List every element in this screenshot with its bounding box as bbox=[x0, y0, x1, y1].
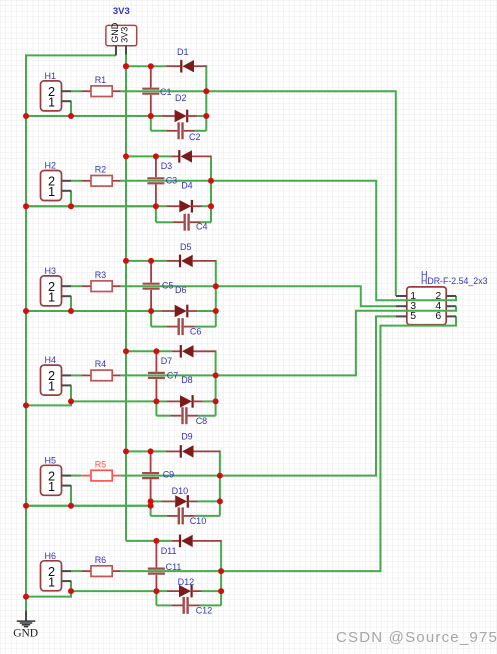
svg-text:R6: R6 bbox=[95, 555, 107, 565]
svg-text:H3: H3 bbox=[45, 266, 57, 276]
svg-text:D2: D2 bbox=[175, 93, 187, 103]
svg-text:C6: C6 bbox=[190, 327, 202, 337]
svg-text:D12: D12 bbox=[178, 577, 195, 587]
svg-text:D9: D9 bbox=[181, 432, 193, 442]
svg-text:H4: H4 bbox=[45, 355, 57, 365]
svg-text:CSDN @Source_975: CSDN @Source_975 bbox=[336, 629, 497, 646]
svg-text:1: 1 bbox=[48, 574, 55, 589]
svg-text:GND: GND bbox=[13, 628, 38, 640]
svg-text:C4: C4 bbox=[196, 222, 208, 232]
svg-text:C2: C2 bbox=[189, 132, 201, 142]
svg-text:H2: H2 bbox=[45, 161, 57, 171]
svg-text:1: 1 bbox=[48, 289, 55, 304]
svg-text:H6: H6 bbox=[45, 551, 57, 561]
svg-text:1: 1 bbox=[48, 94, 55, 109]
svg-text:R3: R3 bbox=[95, 270, 107, 280]
svg-text:1: 1 bbox=[48, 479, 55, 494]
svg-text:D3: D3 bbox=[161, 161, 173, 171]
svg-text:6: 6 bbox=[435, 310, 441, 322]
svg-text:3V3: 3V3 bbox=[119, 27, 129, 43]
svg-text:D6: D6 bbox=[175, 285, 187, 295]
svg-text:R5: R5 bbox=[95, 459, 107, 469]
svg-text:C10: C10 bbox=[190, 516, 207, 526]
svg-text:R2: R2 bbox=[95, 165, 107, 175]
svg-text:HDR-F-2.54_2x3: HDR-F-2.54_2x3 bbox=[421, 276, 488, 286]
svg-text:C1: C1 bbox=[160, 87, 172, 97]
svg-text:H1: H1 bbox=[45, 71, 57, 81]
svg-text:H5: H5 bbox=[45, 455, 57, 465]
svg-text:D1: D1 bbox=[177, 47, 189, 57]
svg-text:1: 1 bbox=[48, 379, 55, 394]
svg-text:D7: D7 bbox=[161, 356, 173, 366]
svg-text:C5: C5 bbox=[162, 281, 174, 291]
svg-text:C11: C11 bbox=[166, 562, 182, 572]
svg-text:R1: R1 bbox=[95, 75, 107, 85]
svg-text:D8: D8 bbox=[181, 375, 193, 385]
svg-text:D10: D10 bbox=[172, 486, 189, 496]
svg-text:3V3: 3V3 bbox=[113, 6, 130, 17]
svg-text:1: 1 bbox=[48, 184, 55, 199]
svg-text:D11: D11 bbox=[161, 546, 177, 556]
svg-text:C7: C7 bbox=[167, 370, 179, 380]
svg-text:C12: C12 bbox=[196, 605, 213, 615]
svg-text:C3: C3 bbox=[166, 176, 178, 186]
svg-text:D5: D5 bbox=[180, 242, 192, 252]
svg-text:R4: R4 bbox=[95, 359, 107, 369]
svg-text:5: 5 bbox=[410, 310, 416, 322]
svg-text:C9: C9 bbox=[163, 470, 175, 480]
svg-text:C8: C8 bbox=[196, 416, 208, 426]
svg-text:D4: D4 bbox=[181, 180, 193, 190]
